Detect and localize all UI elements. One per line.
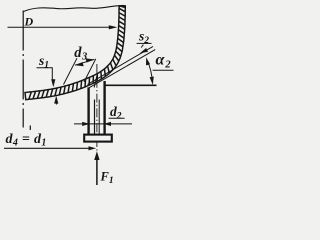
svg-text:D: D (24, 15, 34, 29)
svg-text:α2: α2 (156, 52, 172, 71)
svg-text:d3: d3 (74, 45, 87, 63)
svg-text:d2: d2 (110, 104, 122, 122)
svg-text:s1: s1 (38, 53, 49, 71)
svg-text:d4 = d1: d4 = d1 (6, 132, 47, 149)
svg-text:s2: s2 (138, 29, 149, 47)
svg-text:F1: F1 (100, 170, 114, 187)
